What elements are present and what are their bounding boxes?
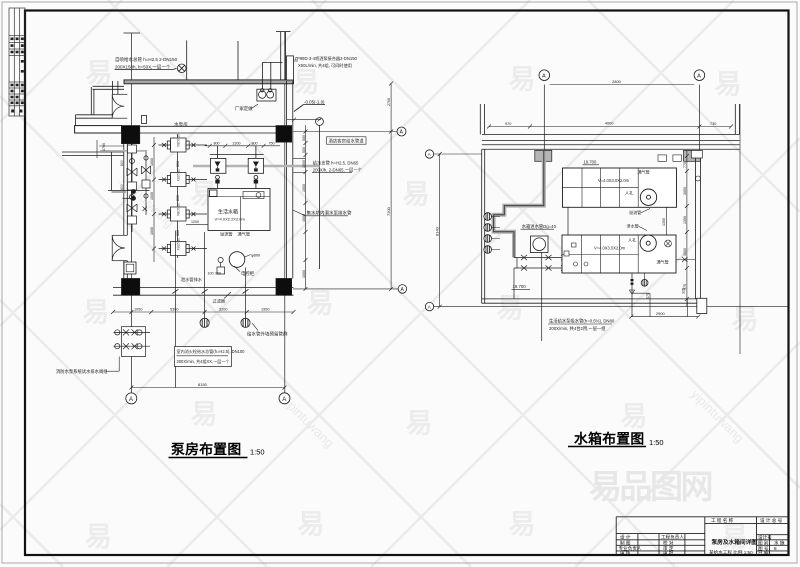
svg-text:易: 易 xyxy=(85,522,112,552)
left outside pipes xyxy=(76,114,113,116)
pipe riser x=186.7 xyxy=(186,40,188,80)
roof pump unit (two motors) xyxy=(257,89,276,101)
svg-text:审 批: 审 批 xyxy=(663,550,674,557)
svg-text:易品图网: 易品图网 xyxy=(589,468,712,505)
svg-text:过滤器: 过滤器 xyxy=(213,298,226,305)
left wall mid + lower segments xyxy=(124,144,128,288)
svg-text:通气管: 通气管 xyxy=(238,231,251,238)
svg-text:易: 易 xyxy=(621,402,648,432)
svg-text:1000: 1000 xyxy=(302,160,306,168)
svg-text:3000: 3000 xyxy=(683,248,687,256)
svg-text:A: A xyxy=(282,397,286,403)
suction header pipe (gray) xyxy=(193,165,320,167)
tank2 small fittings xyxy=(564,240,695,266)
svg-text:1:50: 1:50 xyxy=(649,438,664,447)
grid line to A bubble right (y=288.9) xyxy=(293,288,399,290)
fire pump F2 (vertical) xyxy=(248,146,263,189)
svg-text:易: 易 xyxy=(307,289,334,319)
svg-text:易: 易 xyxy=(83,298,110,328)
fire pump feed header xyxy=(210,154,264,156)
svg-text:1000: 1000 xyxy=(302,270,306,278)
valve group leader + note xyxy=(106,370,119,372)
sprinkler main label xyxy=(115,56,178,70)
svg-text:易: 易 xyxy=(403,180,430,210)
svg-text:4000: 4000 xyxy=(302,214,306,222)
svg-text:600: 600 xyxy=(120,184,124,190)
drain riser with hatched circle xyxy=(644,273,646,279)
tank connector pipe xyxy=(567,207,569,235)
column (bottom-right) xyxy=(276,279,292,296)
label underline leader xyxy=(115,69,173,71)
pump P2 xyxy=(159,169,208,187)
svg-text:500: 500 xyxy=(302,147,306,153)
svg-text:XBD5/10: XBD5/10 xyxy=(177,134,181,147)
svg-text:易: 易 xyxy=(293,68,320,98)
svg-text:易: 易 xyxy=(497,294,524,324)
svg-text:X50L/min, 共4组, 可同时使用: X50L/min, 共4组, 可同时使用 xyxy=(298,62,352,69)
svg-text:室内消火栓给水总管(h=H2.5), DN100: 室内消火栓给水总管(h=H2.5), DN100 xyxy=(177,348,246,354)
right interior dim line xyxy=(683,150,689,306)
pipe riser x=238 xyxy=(237,41,239,80)
top wall between columns xyxy=(139,125,276,127)
sump pit xyxy=(124,262,136,274)
svg-text:XBD5/10: XBD5/10 xyxy=(177,238,181,251)
column (top-right) xyxy=(276,126,292,143)
top dim line 2800 xyxy=(550,79,695,85)
svg-text:2800: 2800 xyxy=(612,79,622,84)
axis drop lines xyxy=(543,85,545,151)
overall dim line x=391 xyxy=(386,82,393,291)
long grid line bottom xyxy=(434,306,789,308)
svg-text:易: 易 xyxy=(406,409,433,439)
riser circle + drop pipe xyxy=(316,118,324,126)
svg-text:工 程 名 称: 工 程 名 称 xyxy=(711,517,734,524)
fire pump dim row xyxy=(205,142,281,148)
water tank T1 xyxy=(563,168,677,207)
wall column marks xyxy=(535,150,552,161)
svg-text:8140: 8140 xyxy=(434,226,439,236)
exterior wall stubs above band xyxy=(479,104,481,134)
right wall xyxy=(694,150,696,299)
elevation note -0.05 xyxy=(294,100,325,112)
left wall xyxy=(481,149,483,303)
svg-text:通气管: 通气管 xyxy=(657,259,669,265)
small pump + drain xyxy=(217,257,225,274)
axis bubble A left xyxy=(425,150,433,158)
svg-text:1350: 1350 xyxy=(662,218,666,226)
svg-text:XBD5/10: XBD5/10 xyxy=(177,169,181,182)
svg-text:19.700: 19.700 xyxy=(584,160,597,165)
far axis line right xyxy=(739,104,741,354)
hatched bubble 3 xyxy=(241,318,250,327)
axis bubble A top-right xyxy=(694,70,705,81)
svg-text:审 核: 审 核 xyxy=(620,550,631,557)
riser circles column (hatched) xyxy=(484,213,492,254)
overall bottom dim xyxy=(129,382,286,390)
svg-text:1700: 1700 xyxy=(102,143,106,151)
svg-text:800: 800 xyxy=(176,161,180,167)
axis line 1 (left, grid A) xyxy=(130,33,132,393)
hotel water pipe note xyxy=(327,137,367,145)
svg-text:A: A xyxy=(697,74,701,80)
pump P3 xyxy=(159,203,208,221)
watermark rotated site text xyxy=(118,172,747,451)
riser rect on wall xyxy=(142,116,147,124)
pump P4 xyxy=(159,238,208,256)
column (bottom-left) xyxy=(122,279,140,296)
svg-text:通气管: 通气管 xyxy=(638,169,650,175)
suction note xyxy=(549,318,615,332)
top-left wall bar xyxy=(75,126,122,133)
dim row above wall xyxy=(487,121,733,128)
svg-text:2700: 2700 xyxy=(387,98,391,106)
bottom dim 2900 xyxy=(629,311,700,319)
sprinkler riser symbol xyxy=(177,64,186,73)
hydrant main note (boxed) xyxy=(175,347,246,367)
bottom wall xyxy=(482,298,699,300)
svg-text:800: 800 xyxy=(120,160,124,166)
svg-text:3050: 3050 xyxy=(683,187,687,195)
pipe continuation left xyxy=(93,85,125,87)
interior dim line x=305.5 xyxy=(302,125,308,291)
inlet pipe (stepped double line) xyxy=(494,151,544,258)
door (top, double leaf) xyxy=(112,94,127,118)
svg-text:泵房及水箱间详图: 泵房及水箱间详图 xyxy=(712,538,758,546)
svg-text:19.700: 19.700 xyxy=(513,284,527,289)
svg-text:1000: 1000 xyxy=(150,227,154,235)
pipe drop to bottom wall xyxy=(513,268,515,299)
door (bottom, double leaf) xyxy=(112,235,127,260)
svg-text:易: 易 xyxy=(509,510,536,540)
left small dims xyxy=(97,140,124,158)
right wall (double line) xyxy=(285,81,287,279)
svg-text:易: 易 xyxy=(86,59,113,89)
watermark glyph grid xyxy=(83,59,759,553)
svg-text:电控柜: 电控柜 xyxy=(241,270,255,277)
svg-text:人孔: 人孔 xyxy=(625,190,633,196)
left overall dim x=439.7 xyxy=(434,152,441,309)
svg-text:1500: 1500 xyxy=(302,184,306,192)
svg-text:1000: 1000 xyxy=(150,192,154,200)
axis bubble A bottom-left xyxy=(425,302,433,310)
svg-text:溢流管: 溢流管 xyxy=(629,209,641,215)
svg-text:给水管外墙预留管群: 给水管外墙预留管群 xyxy=(247,331,288,338)
svg-text:150: 150 xyxy=(215,272,221,276)
svg-text:生活水箱: 生活水箱 xyxy=(218,209,238,216)
svg-text:A: A xyxy=(400,130,404,136)
svg-text:易: 易 xyxy=(509,65,536,95)
svg-text:4000: 4000 xyxy=(605,121,613,125)
svg-text:2200: 2200 xyxy=(233,142,241,146)
svg-text:水泵房: 水泵房 xyxy=(174,121,188,128)
bottom dim line (detail) xyxy=(111,308,296,315)
svg-text:750: 750 xyxy=(269,142,275,146)
svg-text:775: 775 xyxy=(683,162,687,168)
svg-text:5300: 5300 xyxy=(170,308,178,312)
shaft above right wall xyxy=(280,32,282,80)
suction line down xyxy=(174,231,176,388)
branch tee cluster xyxy=(108,189,150,211)
svg-text:易: 易 xyxy=(732,305,759,335)
grid line to A bubble right (y=131.5) xyxy=(293,131,397,133)
svg-text:800: 800 xyxy=(176,195,180,201)
svg-text:厂家定做: 厂家定做 xyxy=(235,105,253,112)
valve row pipes xyxy=(514,255,578,271)
interior valve chain 2 xyxy=(142,150,151,215)
svg-text:易: 易 xyxy=(721,522,748,552)
svg-text:消防水泵系统试水排水阀组: 消防水泵系统试水排水阀组 xyxy=(56,368,108,375)
svg-text:8150: 8150 xyxy=(198,382,208,387)
svg-text:易: 易 xyxy=(715,70,742,100)
axis bubble A (bottom left) xyxy=(126,393,137,404)
svg-text:V=4.0X2.2X2.0m: V=4.0X2.2X2.0m xyxy=(215,217,246,222)
dim between tanks xyxy=(662,207,666,235)
branch pipe note xyxy=(313,160,363,174)
svg-text:A: A xyxy=(129,397,133,403)
svg-text:8: 8 xyxy=(774,546,777,551)
svg-text:325: 325 xyxy=(681,288,685,294)
svg-text:-0.05(-1.9): -0.05(-1.9) xyxy=(304,100,325,105)
column (top-left) xyxy=(122,126,140,144)
wall crossing ticks xyxy=(172,289,248,293)
test drain valve group xyxy=(114,327,151,357)
svg-text:1000: 1000 xyxy=(150,158,154,166)
svg-text:V=4.0X3.0X2.0m: V=4.0X3.0X2.0m xyxy=(598,178,630,183)
svg-text:A: A xyxy=(401,287,405,293)
top wall band (4 lines) xyxy=(482,134,740,149)
svg-text:100: 100 xyxy=(208,272,214,276)
signature strip tiny text dots xyxy=(11,38,24,113)
pressure tank xyxy=(229,252,261,268)
axis line 2 (right) xyxy=(284,32,286,393)
main pipe (double-line, top) xyxy=(124,80,294,84)
fire pump F1 (vertical) xyxy=(211,146,226,189)
title: pump room plan xyxy=(169,441,265,458)
wall fitting circle xyxy=(695,176,700,181)
svg-text:1950: 1950 xyxy=(261,308,269,312)
living water tank xyxy=(208,189,270,231)
svg-text:水箱布置图: 水箱布置图 xyxy=(574,431,644,447)
svg-text:575: 575 xyxy=(646,293,650,299)
svg-text:1350: 1350 xyxy=(683,216,687,224)
svg-text:500: 500 xyxy=(302,135,306,141)
axis bubble A top-left xyxy=(539,70,550,81)
left wall upper segment xyxy=(112,81,118,94)
svg-text:970: 970 xyxy=(505,122,511,126)
axis bubble A (right upper) xyxy=(397,127,406,136)
svg-text:设 计 总 号: 设 计 总 号 xyxy=(760,517,783,524)
svg-text:生活给水泵吸水管(h=0.5%), DN80: 生活给水泵吸水管(h=0.5%), DN80 xyxy=(549,318,615,325)
axis bubble A (right lower) xyxy=(398,285,407,294)
interior valve chain 1 xyxy=(127,142,137,232)
svg-text:溢流管: 溢流管 xyxy=(220,231,233,238)
svg-text:ZP99D-3-4喷洒泵接合器2-DN150: ZP99D-3-4喷洒泵接合器2-DN150 xyxy=(295,55,358,62)
dim line y=119.6 (top right) xyxy=(287,118,322,122)
svg-text:800: 800 xyxy=(176,230,180,236)
vent u-pipe to roof pump xyxy=(263,61,283,63)
pump header vertical xyxy=(177,134,179,258)
riser lines to bubbles 2,3 xyxy=(204,232,206,318)
svg-text:1200: 1200 xyxy=(191,220,199,224)
water meter box xyxy=(531,236,549,253)
water tank T2 xyxy=(562,235,676,273)
svg-text:1050: 1050 xyxy=(134,308,142,312)
bottom wall end block xyxy=(697,298,707,313)
svg-text:人孔: 人孔 xyxy=(628,236,636,242)
title: tank room plan xyxy=(568,431,664,448)
svg-text:给水支管 h=H2.5, DN65: 给水支管 h=H2.5, DN65 xyxy=(313,160,359,167)
svg-text:易: 易 xyxy=(191,400,218,430)
dim 1200 to tank xyxy=(186,220,208,224)
svg-text:酒店客房给水管道: 酒店客房给水管道 xyxy=(329,138,365,145)
svg-text:3200: 3200 xyxy=(219,308,227,312)
axis bubble A (bottom right) xyxy=(279,393,290,404)
svg-text:XBD5/10: XBD5/10 xyxy=(177,203,181,216)
pump P1 xyxy=(159,134,208,152)
svg-text:800: 800 xyxy=(252,142,258,146)
svg-text:某给水工程 比例 1:50: 某给水工程 比例 1:50 xyxy=(709,549,753,556)
svg-text:1:50: 1:50 xyxy=(250,448,265,457)
svg-text:yipintuwang: yipintuwang xyxy=(688,387,747,446)
svg-text:泄水管: 泄水管 xyxy=(627,223,639,229)
svg-text:200X/min, 共4组XX,一层一个: 200X/min, 共4组XX,一层一个 xyxy=(177,358,230,364)
svg-text:A: A xyxy=(542,74,546,80)
svg-text:V=4.0X3.0X2.0m: V=4.0X3.0X2.0m xyxy=(594,245,626,250)
suction pipe drop + elevation mark xyxy=(631,273,633,317)
svg-text:7200: 7200 xyxy=(386,206,391,216)
title block text xyxy=(619,517,785,557)
svg-text:泄水管排水: 泄水管排水 xyxy=(181,276,203,283)
svg-text:800: 800 xyxy=(214,142,220,146)
meter drop pipe xyxy=(541,253,543,342)
riser tick top xyxy=(124,32,141,34)
pipe sleeve stubs xyxy=(658,155,667,161)
svg-text:φ800: φ800 xyxy=(251,253,261,258)
svg-text:730: 730 xyxy=(710,122,716,126)
svg-text:易: 易 xyxy=(298,510,325,540)
pump row dim line xyxy=(150,137,156,262)
svg-text:泵房布置图: 泵房布置图 xyxy=(171,441,241,457)
top-right leader note xyxy=(295,55,358,69)
svg-text:自喷给水总管 h=H2.5 2-DN150: 自喷给水总管 h=H2.5 2-DN150 xyxy=(115,56,178,63)
svg-text:200X/min, 共4台2用,一层一组: 200X/min, 共4台2用,一层一组 xyxy=(549,325,606,332)
hatched bubble 2 xyxy=(200,318,209,327)
bottom wall xyxy=(113,287,294,289)
svg-text:2900: 2900 xyxy=(656,311,665,316)
riser tick top right xyxy=(276,31,291,33)
